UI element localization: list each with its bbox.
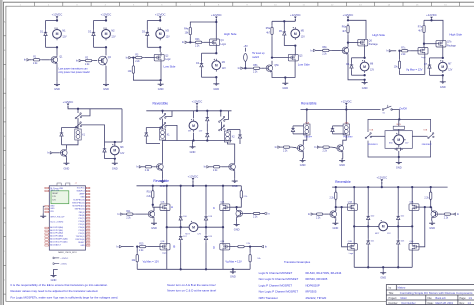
transistor Q1 [50, 55, 63, 64]
ground R3 B [339, 158, 345, 167]
wire Q1 emitter to ground [56, 64, 58, 81]
wire Q4 drain to motor rail [215, 46, 217, 54]
junction HB1 dleft bottom [180, 268, 182, 270]
relay coil K1 R2 [159, 129, 170, 140]
diode D11 [206, 115, 209, 123]
wire D8 bottom lead [61, 139, 63, 145]
wire R5b to base Q5b [262, 67, 265, 69]
wire top rail R3 to switch [301, 109, 381, 111]
svg-text:ON/OFF: ON/OFF [304, 137, 312, 139]
svg-text:High Side: High Side [224, 32, 237, 36]
svg-text:Logic P Channel MOSFET: Logic P Channel MOSFET [259, 283, 293, 287]
wire bottom motor rail C4 [202, 76, 217, 78]
wire R9 to base Q9 [154, 166, 156, 168]
wire In stub HB2 right [452, 213, 454, 215]
svg-text:Logic: Logic [165, 59, 171, 61]
svg-text:Xtal 2 = 16MHz: Xtal 2 = 16MHz [50, 221, 63, 224]
wire rail to coil K2A [345, 110, 347, 125]
wire motor top R2 [193, 111, 195, 119]
ground C6 [362, 80, 368, 90]
N-channel MOSFET D [220, 243, 230, 250]
diode D19 [204, 234, 207, 242]
junction HB2 mid right [411, 225, 413, 227]
svg-text:+12VDC: +12VDC [155, 13, 166, 17]
wire R6a to gate node C6 [347, 35, 349, 43]
wire Q13 emitter down [153, 219, 155, 221]
svg-text:+12VDC: +12VDC [426, 13, 437, 17]
wire right throw1 R2 [224, 111, 228, 120]
diode D21 [367, 239, 370, 247]
svg-text:R6a: R6a [342, 27, 347, 29]
junction R1 motor bottom [114, 157, 116, 159]
svg-text:FWD/REV: FWD/REV [343, 137, 353, 139]
junction R1 motor top [114, 141, 116, 143]
wire top rail R2 [146, 110, 231, 112]
wire D source down [222, 250, 224, 269]
wire bottom rail C2 [94, 46, 107, 48]
power +12VDC relay circuit R1 [63, 100, 74, 108]
ground HB2 right driver [429, 221, 435, 230]
svg-text:M: M [192, 226, 195, 230]
wire D11 top lead [206, 111, 208, 115]
wire bottom motor rail C5 [284, 45, 295, 47]
svg-text:+12VDC: +12VDC [376, 176, 387, 180]
svg-text:M: M [363, 65, 366, 69]
svg-text:10: 10 [87, 215, 89, 217]
junction R3 stage A [306, 108, 308, 110]
svg-text:ADC3/PC3(A3): ADC3/PC3(A3) [50, 235, 63, 238]
junction HB1 rail center [192, 185, 194, 187]
svg-text:Q1A: Q1A [160, 201, 165, 204]
svg-text:GND: GND [380, 276, 386, 280]
junction gate node C5 [271, 56, 273, 58]
svg-text:16: 16 [87, 233, 89, 235]
svg-text:SCK/PB5(13): SCK/PB5(13) [73, 200, 85, 202]
junction HB2 dright top [397, 186, 399, 188]
svg-text:M: M [56, 32, 59, 36]
wire to ground R1 motor [114, 159, 116, 161]
wire D1 top lead [45, 21, 47, 30]
wire mid rail right HB1 [199, 226, 223, 228]
svg-text:GND: GND [50, 205, 55, 207]
junction HB2 dleft bottom [367, 266, 369, 268]
wire C drain to mid [222, 211, 224, 228]
wire In to R14 [123, 213, 125, 215]
svg-text:Title:: Title: [389, 292, 395, 295]
junction HB2 R23 [430, 186, 432, 188]
relay contact K2B FWD/REV2 [428, 133, 434, 139]
wire Q16 emitter down [431, 219, 433, 221]
wire HB2 dleft mid [367, 222, 369, 239]
svg-text:PB0(8): PB0(8) [79, 215, 85, 217]
wire In to node D [246, 246, 261, 248]
svg-text:R5b: R5b [253, 65, 258, 67]
ground C3 [158, 82, 164, 91]
junction HB2 gate left [335, 206, 337, 208]
wire gate line C6 [348, 42, 358, 44]
ground HB1 [230, 269, 236, 278]
svg-text:Vg Max = 12V: Vg Max = 12V [143, 259, 160, 263]
motor M9 [189, 119, 198, 132]
wire D13 bottom lead [239, 141, 241, 145]
wire In to R5b [243, 67, 251, 69]
wire vcc stub R3 [345, 106, 347, 110]
svg-text:SCL/PC5: SCL/PC5 [77, 188, 85, 190]
svg-text:GND: GND [282, 86, 288, 90]
wire R23 to gate right P [416, 200, 431, 207]
relay contact K1 contact 2 [75, 122, 81, 128]
wire gate line to Q7b [424, 43, 436, 45]
wire coil to Q11 collector [303, 135, 307, 144]
resistor R2 2.2k [83, 57, 94, 65]
svg-text:M: M [441, 65, 444, 69]
wire top motor rail C7 [430, 57, 443, 59]
wire top motor rail R1 [105, 141, 115, 143]
ground R2 right [232, 178, 238, 188]
svg-text:Vg Max = 12V: Vg Max = 12V [406, 68, 423, 72]
N-channel MOSFET T6 [347, 244, 357, 251]
svg-text:FWD/REV2: FWD/REV2 [422, 144, 432, 146]
wire node to R7b [399, 51, 401, 59]
wire top rail HB1 [137, 185, 242, 187]
wire emitter to bottom rail C5 [272, 73, 295, 78]
svg-text:Low Side: Low Side [298, 62, 310, 66]
svg-text:On/Off: On/Off [399, 107, 407, 110]
svg-text:GND: GND [50, 208, 55, 210]
wire In to R9 [142, 166, 144, 168]
wire diode column left top [180, 186, 182, 215]
P-channel MOSFET C [220, 204, 230, 211]
N-channel MOSFET T8 [409, 244, 419, 251]
diode D23 [397, 239, 400, 247]
wire loop to motor R1 [115, 141, 122, 143]
svg-text:R4b: R4b [195, 39, 200, 41]
wire R16 to bottom rail [136, 264, 138, 270]
svg-text:+12VDC: +12VDC [343, 13, 354, 17]
svg-text:Q2A: Q2A [220, 201, 225, 204]
wire In to node B [122, 246, 134, 248]
svg-text:PD5(5): PD5(5) [79, 224, 85, 226]
wire rail to R23 [430, 187, 432, 192]
wire right pole link R2 [221, 122, 223, 131]
svg-text:GND: GND [190, 150, 196, 154]
resistor R13 2.2k [146, 189, 153, 200]
input port In HB2 left [308, 212, 314, 216]
svg-text:M: M [397, 138, 400, 142]
ground HB2 [380, 270, 386, 280]
svg-text:GND: GND [158, 87, 164, 91]
wire D12 bottom lead [206, 139, 208, 140]
svg-text:NPN Transistor: NPN Transistor [259, 296, 278, 300]
svg-text:+12VDC: +12VDC [290, 13, 301, 17]
wire motor to Q1 collector [56, 47, 58, 55]
svg-text:GND: GND [234, 227, 240, 231]
svg-text:PD6(6): PD6(6) [79, 221, 85, 223]
motor M12 [377, 220, 390, 231]
diode D12 [206, 131, 209, 139]
svg-text:R10: R10 [147, 192, 152, 194]
wire R24 to base Q16 [439, 213, 442, 215]
wire vcc to rail C7 [431, 19, 433, 20]
wire Q16 collector up [431, 207, 433, 211]
resistor R17 2.2k [240, 189, 242, 200]
power +12VDC circuit 4 [211, 13, 222, 21]
junction C3 source [159, 79, 161, 81]
resistor R22 2.2k [314, 213, 325, 219]
svg-text:ADC5/SCL/PC5(A5): ADC5/SCL/PC5(A5) [50, 240, 67, 243]
wire R19 to gate D [230, 246, 236, 248]
junction HB1 dleft mid [180, 226, 182, 228]
svg-text:+12VDC: +12VDC [101, 13, 112, 17]
svg-text:High Side: High Side [372, 33, 385, 37]
wire D13 top lead [239, 130, 241, 133]
relay contact K2 right contact 2 [219, 125, 225, 131]
U1 left pin boxes [45, 187, 49, 246]
svg-text:FWD/REV1: FWD/REV1 [368, 144, 378, 146]
svg-text:GND: GND [80, 245, 85, 247]
wire top rail C1 [46, 20, 58, 22]
svg-text:GND: GND [300, 163, 306, 167]
wire R6b to base Q6b [331, 49, 341, 51]
resistor R9 2.2k [143, 166, 154, 172]
wire to ground HB2 [382, 267, 384, 270]
svg-text:R6b: R6b [322, 47, 327, 49]
wire R1 to base Q1 [42, 59, 50, 61]
wire T7 drain to mid [411, 210, 413, 226]
transistor Q6b [341, 46, 349, 55]
wire D10 bottom lead [145, 139, 147, 144]
power +12VDC circuit 5 [290, 13, 301, 21]
svg-text:GND: GND [339, 163, 345, 167]
svg-text:GND: GND [51, 278, 57, 282]
diode D13 [238, 133, 241, 141]
wire bottom rail HB2 [354, 266, 412, 268]
svg-text:Number:: Number: [389, 302, 399, 305]
ground C1 [54, 82, 60, 91]
svg-text:GND: GND [64, 166, 70, 170]
wire T6 drain up [353, 226, 355, 243]
junction HB1 D input [249, 245, 251, 247]
wire D8 to coil top [62, 127, 79, 129]
svg-text:12V: 12V [111, 37, 116, 39]
junction gate node C7 [423, 43, 425, 45]
resistor R12 2.2k [321, 146, 332, 152]
svg-text:NANO_CMOS_MCU: NANO_CMOS_MCU [58, 251, 77, 254]
svg-text:RX/PD0(0): RX/PD0(0) [75, 239, 85, 241]
power +12VDC circuit 7 [426, 13, 437, 21]
motor M7 [438, 60, 452, 73]
svg-text:M: M [113, 149, 116, 153]
input port In C3 [126, 56, 132, 60]
wire D15 top tie [333, 125, 344, 127]
switch S1 ON/OFF [382, 105, 392, 110]
transistor Q9 [155, 162, 163, 171]
wire vcc to rail C5 [294, 19, 296, 21]
power +12VDC circuit 6 [343, 13, 354, 21]
svg-text:ADC1/PC1(A1): ADC1/PC1(A1) [50, 229, 63, 232]
svg-text:Reversible: Reversible [153, 101, 169, 105]
resistor R15 2.2k [137, 243, 148, 251]
wire node to Q5b collector [271, 61, 273, 64]
relay contact K1B FWD/REV1 [365, 133, 371, 139]
wire to ground C5 [284, 78, 286, 81]
svg-text:2.2k: 2.2k [244, 196, 248, 198]
svg-text:12V: 12V [62, 37, 67, 39]
svg-text:SS/PB2(10): SS/PB2(10) [75, 209, 85, 211]
ground R1 driver [63, 161, 69, 171]
junction C6 motor bottom [363, 74, 365, 76]
wire Q7a source down [424, 54, 426, 74]
resistor R1 2.2k [31, 57, 42, 65]
wire A source up [166, 186, 168, 204]
ground R2 left [160, 178, 166, 188]
motor M6 [360, 60, 374, 73]
wire left throw1 R2 [165, 111, 172, 117]
DPDT reversing box outline [368, 119, 431, 157]
junction C2 top [105, 19, 107, 21]
wire R17 to gate C [230, 198, 242, 207]
svg-text:Low power transistors can: Low power transistors can [59, 67, 89, 70]
power +12VDC circuit 1 [52, 13, 63, 21]
diode D20 [367, 214, 370, 222]
svg-text:Logic: Logic [349, 253, 354, 255]
wire B source down [166, 250, 168, 269]
U1 right inside pin names [72, 188, 85, 247]
resistor R10 2.2k [211, 166, 222, 172]
svg-text:For Logic MOSFETs, make sure V: For Logic MOSFETs, make sure Vgs max is … [11, 296, 119, 300]
svg-text:5V level up: 5V level up [252, 52, 265, 55]
svg-text:R7a: R7a [418, 26, 423, 28]
svg-text:GND: GND [396, 165, 402, 169]
wire Q7b drain to motor [442, 47, 444, 58]
ground HB1 C driver [234, 222, 240, 232]
svg-text:Matoro: Matoro [398, 287, 406, 290]
svg-text:13: 13 [87, 224, 89, 226]
junction C5 input node [244, 67, 246, 69]
svg-text:TX/PD1(1): TX/PD1(1) [76, 236, 85, 238]
junction C6 ground node [363, 79, 365, 81]
resistor R3 2.2k [133, 54, 144, 62]
wire Q13 collector up [153, 207, 155, 211]
svg-text:Q3B: Q3B [348, 241, 353, 243]
junction R2 left pole [161, 110, 163, 112]
svg-text:D21: D21 [371, 240, 374, 242]
input port In HB2 right [453, 212, 459, 216]
svg-text:PD2(2): PD2(2) [79, 233, 85, 235]
resistor R6a 4k7 [342, 24, 349, 35]
wire box top to snubber [398, 119, 400, 126]
svg-text:17: 17 [87, 236, 89, 238]
svg-text:MOSI/PB3(11): MOSI/PB3(11) [72, 206, 85, 208]
input port In C6 [310, 48, 316, 52]
svg-text:12V: 12V [370, 69, 375, 71]
junction HB2 ground [382, 266, 384, 268]
power +12VDC circuit 3 [155, 13, 166, 21]
svg-text:D22: D22 [401, 216, 404, 218]
svg-text:VIN 7-12V: VIN 7-12V [50, 190, 59, 192]
wire D11 to D12 [206, 123, 208, 131]
junction HB1 gate A [152, 204, 154, 206]
wire left pole stub R2 [162, 111, 164, 114]
resistor R19 2.2k [236, 245, 247, 247]
N-channel MOSFET B [160, 243, 170, 250]
svg-text:Non Logic N Channel MOSFET: Non Logic N Channel MOSFET [259, 277, 299, 281]
svg-text:M: M [382, 225, 385, 229]
N-channel MOSFET Q5 [288, 54, 303, 61]
input port In C1 [24, 58, 30, 62]
resistor R7c 2.2k [399, 48, 410, 56]
junction HB1 mid left [166, 226, 168, 228]
svg-text:+12VDC: +12VDC [63, 100, 74, 104]
wire motor to Q2 collector [105, 47, 107, 55]
svg-text:M: M [159, 32, 162, 36]
wire U1 gnd pins [43, 206, 44, 214]
wire rail to R13 [152, 186, 154, 191]
wire R10 to base Q10 [222, 166, 228, 168]
darlington transistor Q2 [98, 56, 111, 65]
svg-text:D17: D17 [183, 236, 186, 238]
junction C6 rail [347, 19, 349, 21]
frame top ticks and section numbers [20, 2, 460, 6]
wire vcc stub HB2 [381, 182, 383, 187]
junction C1 bottom [56, 46, 58, 48]
wire motor to Q5 drain [294, 46, 296, 55]
svg-text:R5a: R5a [266, 28, 271, 30]
svg-text:12V: 12V [448, 69, 453, 71]
wire T8 drain up [411, 226, 413, 243]
wire left throw2 R2 [165, 125, 177, 140]
ground U1 [40, 214, 46, 219]
svg-text:S1: S1 [383, 112, 385, 114]
wire D7 top lead [429, 58, 431, 63]
svg-text:ADC2/PC2(A2): ADC2/PC2(A2) [50, 232, 63, 235]
svg-text:Low Side: Low Side [164, 64, 176, 68]
svg-text:2N2222, TIP120: 2N2222, TIP120 [306, 296, 327, 300]
wire vcc stub HB1 [192, 181, 194, 186]
wire bottom motor rail R1 [105, 158, 115, 160]
wire motor to Q3 drain [159, 47, 161, 52]
wire diode column left mid [180, 222, 182, 234]
junction HB1 dright bottom [205, 268, 207, 270]
svg-text:M: M [215, 64, 218, 68]
svg-text:R15: R15 [139, 243, 144, 245]
svg-text:20: 20 [87, 245, 89, 247]
junction HB1 ground [232, 268, 234, 270]
wire R21 to gate left P [336, 200, 348, 207]
junction R3 rail [345, 108, 347, 110]
ground HB1 A driver [151, 221, 157, 230]
diode D8 [60, 131, 63, 139]
green label box U1 [51, 191, 69, 204]
wire D10 to coil R2 [146, 127, 162, 129]
svg-text:Q3A: Q3A [348, 201, 353, 204]
svg-text:Package: Package [447, 45, 457, 47]
svg-text:D16: D16 [183, 216, 186, 218]
wire vcc rail down C4 [215, 19, 217, 39]
junction C7 rail [430, 19, 432, 21]
junction C6 motor top [363, 57, 365, 59]
wire to ground R4 [398, 157, 400, 160]
wire pulldown to source rail [133, 75, 160, 80]
wire In to node C4 [187, 41, 193, 43]
svg-text:D20: D20 [371, 216, 374, 218]
resistor R23 2.2k [424, 190, 431, 201]
svg-text:M: M [105, 32, 108, 36]
wire Q15 emitter down [335, 219, 337, 221]
svg-text:Q4B: Q4B [409, 241, 414, 243]
resistor R20 10k [249, 253, 251, 264]
wire diode column right top [205, 186, 207, 215]
